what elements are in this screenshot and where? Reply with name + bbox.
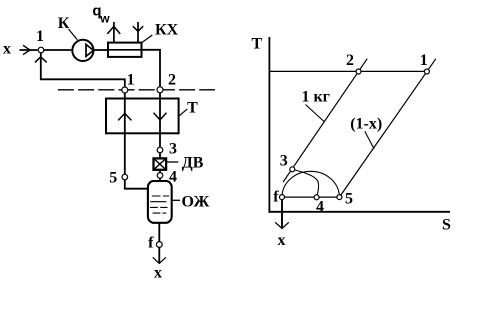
svg-text:2: 2 [168,71,176,88]
svg-text:К: К [58,15,70,32]
svg-text:x: x [278,232,286,249]
svg-text:S: S [442,216,451,233]
svg-text:ДВ: ДВ [182,155,204,172]
svg-text:f: f [273,188,279,205]
svg-text:КХ: КХ [155,21,179,38]
svg-text:1 кг: 1 кг [301,89,329,106]
svg-text:x: x [154,265,162,282]
svg-text:x: x [3,41,11,58]
svg-text:5: 5 [109,169,117,186]
svg-text:1: 1 [36,28,44,45]
svg-text:1: 1 [420,52,428,69]
svg-text:4: 4 [316,199,324,216]
svg-text:3: 3 [169,141,177,158]
svg-text:5: 5 [345,191,353,208]
svg-text:3: 3 [280,152,288,169]
svg-text:1: 1 [127,71,135,88]
svg-text:Т: Т [187,99,198,116]
svg-text:ОЖ: ОЖ [182,193,210,210]
svg-text:Т: Т [251,36,262,53]
svg-text:w: w [99,11,110,25]
svg-text:2: 2 [346,52,354,69]
svg-text:(1-x): (1-x) [350,115,382,132]
svg-text:f: f [148,234,154,251]
